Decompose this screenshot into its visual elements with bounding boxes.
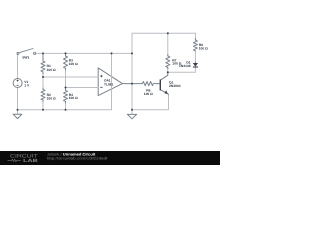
footer bar bbox=[0, 151, 220, 165]
svg-text:1 V: 1 V bbox=[24, 83, 30, 87]
svg-text:1N4148: 1N4148 bbox=[179, 64, 191, 68]
junction: rail2 / R7 top bbox=[167, 32, 169, 34]
switch SW1 lever bbox=[19, 49, 33, 53]
switch SW1 left terminal bbox=[17, 53, 19, 55]
wire R3 leads bbox=[65, 53, 67, 87]
resistor R1 bbox=[41, 55, 45, 75]
logo wire squiggle bbox=[8, 159, 21, 161]
wire R7 leads bbox=[167, 33, 169, 72]
junction: R7 / D1 return / Q1 collector bbox=[167, 71, 169, 73]
svg-text:100 Ω: 100 Ω bbox=[47, 68, 56, 72]
junction: rail1 / R1 top bbox=[42, 52, 44, 54]
svg-text:LAB: LAB bbox=[23, 158, 39, 163]
transistor Q1 emitter arrow bbox=[164, 90, 168, 94]
junction: R3-R4 node to op-amp - bbox=[65, 87, 67, 89]
resistor R3 bbox=[64, 55, 68, 70]
wire R4 leads bbox=[65, 88, 67, 110]
component symbols bbox=[13, 39, 197, 119]
wire bottom rail bbox=[18, 53, 112, 109]
resistor R6 bbox=[122, 82, 160, 86]
V1 minus mark bbox=[17, 84, 19, 86]
svg-text:100 Ω: 100 Ω bbox=[144, 92, 153, 96]
light wires bbox=[18, 33, 196, 114]
junction: emitter return / ground 2 bbox=[131, 109, 133, 111]
svg-text:SW1: SW1 bbox=[22, 56, 29, 60]
wire R1 leads bbox=[42, 53, 44, 77]
wire Q1 emitter to ground rail bbox=[132, 94, 169, 109]
labels bbox=[22, 43, 208, 101]
transistor Q1 collector bbox=[161, 72, 168, 80]
resistor R2 bbox=[41, 88, 45, 102]
junction: op-amp output / middle vertical bbox=[131, 83, 133, 85]
transistor Q1 base bar bbox=[159, 79, 161, 90]
ground 2 bbox=[127, 114, 136, 118]
resistor R8 bbox=[193, 39, 197, 52]
junction: rail1 / R3 top bbox=[65, 52, 67, 54]
wire R8 leads and diode branch bbox=[168, 33, 196, 72]
op-amp + mark bbox=[100, 75, 102, 77]
wire V1 to bottom rail bbox=[17, 87, 19, 109]
diode D1 anode lead bbox=[194, 62, 196, 63]
V1 plus mark bbox=[17, 80, 19, 82]
svg-text:TL081: TL081 bbox=[104, 82, 113, 86]
op-amp OA1 body bbox=[98, 68, 122, 96]
op-amp - mark bbox=[100, 86, 102, 88]
voltage source V1 bbox=[13, 79, 22, 88]
wire top rail right bbox=[132, 32, 195, 34]
transistor Q1 emitter bbox=[161, 90, 169, 94]
junction: bottom rail / R2 bottom bbox=[42, 109, 44, 111]
wire middle vertical bbox=[131, 33, 133, 110]
svg-text:100 Ω: 100 Ω bbox=[69, 96, 78, 100]
switch SW1 right terminal bbox=[34, 52, 36, 54]
junction: bottom rail / V1- / ground bbox=[17, 109, 19, 111]
ground 1 bbox=[13, 114, 22, 118]
svg-text:2N3904: 2N3904 bbox=[169, 84, 181, 88]
wire ground stem 2 bbox=[131, 110, 133, 115]
resistor R7 bbox=[166, 55, 170, 70]
wire top rail left bbox=[36, 52, 132, 54]
resistor R4 bbox=[64, 89, 68, 103]
junction: bottom rail / R4 bottom bbox=[65, 109, 67, 111]
wire switch to V1 bbox=[17, 54, 19, 78]
junction: R1-R2 node to op-amp + bbox=[42, 76, 44, 78]
wire ground stem 1 bbox=[17, 110, 19, 114]
wire R2 leads bbox=[42, 77, 44, 110]
junction: rail1 / middle vertical bbox=[131, 52, 133, 54]
diode D1 cathode bar bbox=[193, 66, 198, 68]
svg-text:http://circuitlab.com/c/3f22d6: http://circuitlab.com/c/3f22d6df bbox=[47, 157, 108, 161]
wire op-amp -input bbox=[66, 87, 99, 89]
svg-text:100 Ω: 100 Ω bbox=[199, 46, 208, 50]
svg-text:100 Ω: 100 Ω bbox=[69, 62, 78, 66]
diode D1 arrow bbox=[193, 63, 198, 67]
wire op-amp +input bbox=[43, 76, 98, 78]
svg-text:100 Ω: 100 Ω bbox=[47, 96, 56, 100]
junction: rail1 / left return wire bbox=[111, 52, 113, 54]
junction dots bbox=[17, 32, 169, 111]
